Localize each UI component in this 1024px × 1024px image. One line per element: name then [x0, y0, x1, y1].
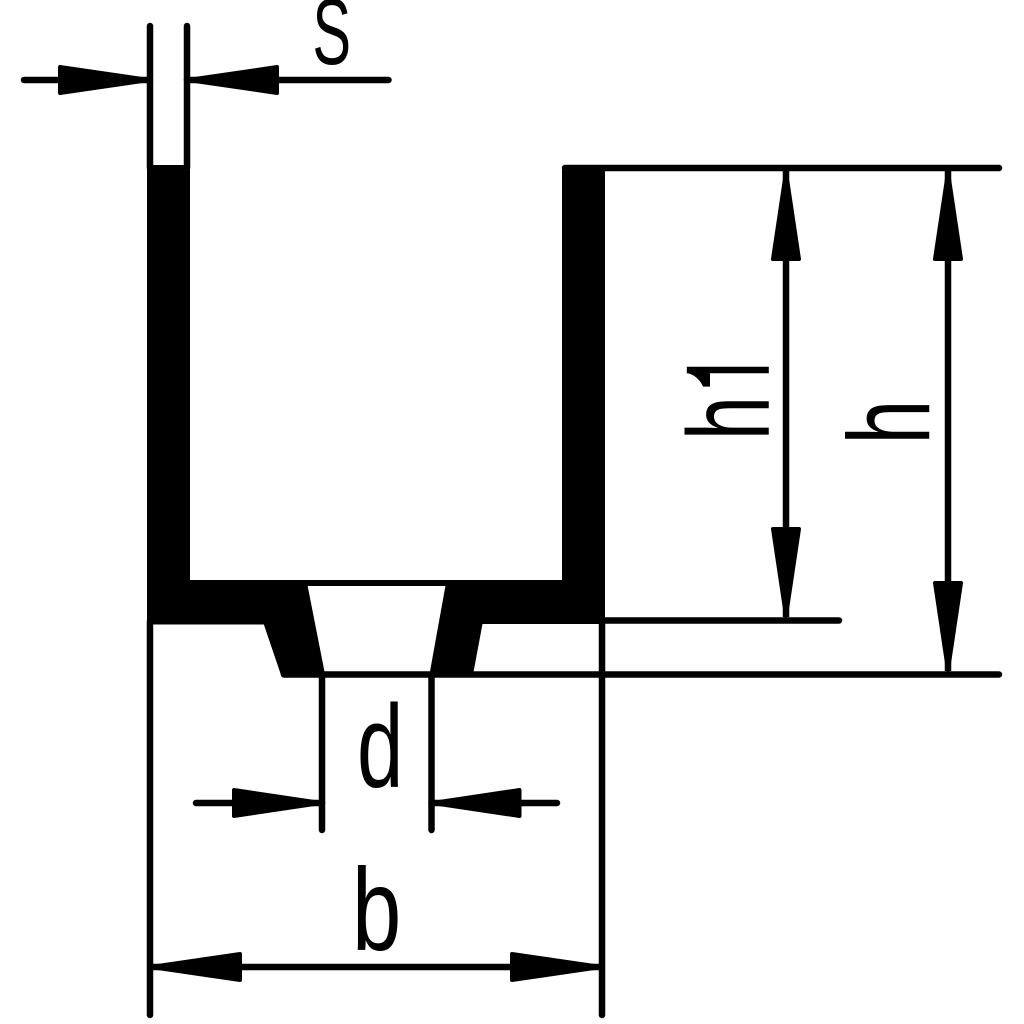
slot cavity (white trapezoid hole in boss) — [304, 583, 449, 675]
wire: extension line b left (x=150) — [147, 622, 154, 1016]
label d — [357, 681, 403, 813]
wire: extension line S right (x=187) — [184, 26, 191, 168]
wire: S dimension line right segment — [187, 77, 389, 84]
label h (rotated) — [825, 400, 954, 444]
svg-text:d: d — [357, 681, 403, 813]
wire: extension line S left (x=150) — [147, 26, 154, 168]
arrow b right (points right at x=602) — [512, 954, 601, 980]
channel profile body (walls + web + boss), section filled black — [150, 168, 602, 675]
svg-text:S: S — [313, 0, 352, 85]
arrow S left (points right at x=150) — [60, 67, 149, 93]
wire: extension line d right (x=431.5) — [428, 675, 435, 831]
wire: b dimension line — [150, 964, 602, 971]
arrow S right (points left at x=187) — [188, 67, 277, 93]
arrow d left (points right at x=322) — [234, 790, 321, 816]
label b — [352, 844, 401, 975]
arrow h top (points up at y=168) — [935, 172, 961, 259]
svg-text:h: h — [664, 396, 794, 440]
arrow d right (points left at x=431.5) — [433, 790, 520, 816]
label S — [313, 0, 352, 85]
arrow h1 bottom (points down at y=620) — [773, 529, 799, 616]
arrow b left (points left at x=150) — [151, 954, 240, 980]
wire: bottom extension line h1 (y=620.5) — [602, 617, 839, 624]
arrow h bottom (points down at y=674.5) — [935, 583, 961, 670]
wire: top extension line (top face, y=168) — [565, 165, 999, 172]
wire: d dimension line right segment — [432, 800, 558, 807]
wire: S dimension line left segment — [24, 77, 150, 84]
wire: h1 dimension line (x=786) — [783, 171, 790, 617]
svg-text:b: b — [352, 844, 401, 975]
wire: h dimension line (x=947) — [945, 171, 952, 671]
wire: extension line d left (x=322) — [319, 675, 326, 831]
wire: extension line b right (x=602) — [599, 621, 606, 1015]
arrow h1 top (points up at y=168) — [773, 172, 799, 259]
label h1 (rotated) — [664, 396, 794, 440]
wire: d dimension line left segment — [196, 800, 322, 807]
wire: bottom extension line h / boss bottom (y=674.5) — [284, 671, 999, 678]
svg-text:h: h — [825, 400, 954, 444]
